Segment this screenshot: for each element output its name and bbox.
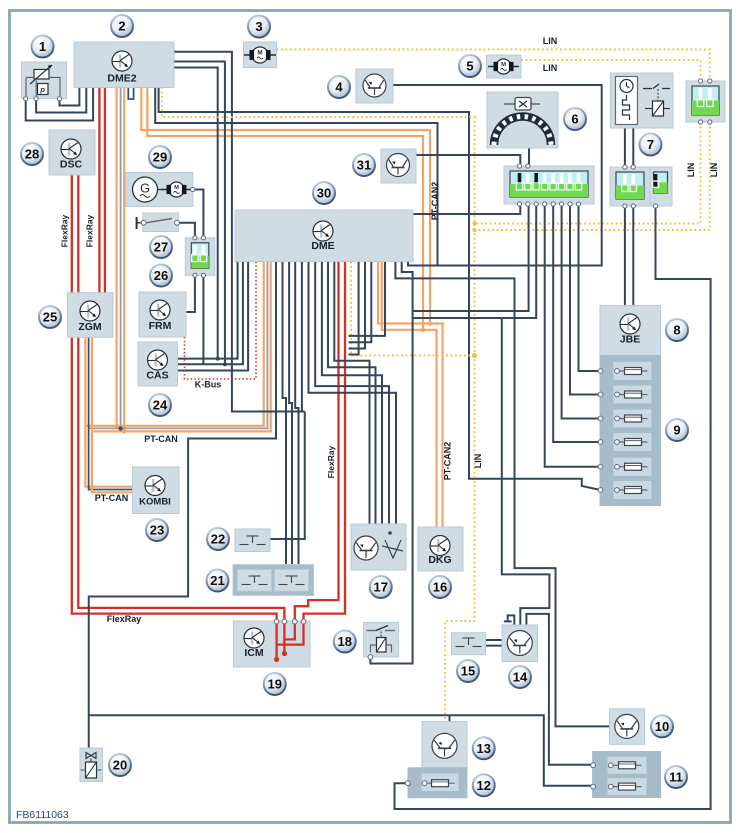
- svg-text:M: M: [257, 50, 262, 57]
- label circle 8: [666, 319, 688, 341]
- label circle 27: [150, 236, 172, 258]
- wire box1-DME2 mid: [36, 87, 86, 113]
- svg-text:FRM: FRM: [149, 320, 172, 332]
- svg-text:PT-CAN2: PT-CAN2: [443, 442, 453, 481]
- wire DME2 y123 to box4 net: [155, 87, 437, 266]
- svg-text:17: 17: [374, 580, 388, 595]
- label circle 30: [313, 182, 335, 204]
- wire FlexRay DME-ICM a: [295, 262, 339, 622]
- fuse 9-4: [614, 434, 651, 451]
- transistor box 4: [356, 69, 393, 103]
- wire DME2 to JBE row6: [159, 87, 601, 490]
- svg-text:p: p: [39, 85, 45, 94]
- wire DME to box17 4: [315, 262, 389, 525]
- wire bottom run to box11 row2: [89, 715, 611, 785]
- connector 7 single black: [650, 167, 672, 208]
- wire FlexRay DME2-ZGM a: [98, 87, 100, 293]
- label circle 11: [665, 766, 687, 788]
- ICM red internal wiring: [275, 622, 277, 659]
- wire DME stub left 2: [349, 262, 372, 343]
- wire conn27 to FRM: [186, 275, 195, 312]
- label circle 28: [21, 143, 43, 165]
- wire PT-CAN ZGM-KOMBI c: [92, 337, 133, 492]
- svg-text:FlexRay: FlexRay: [85, 214, 95, 247]
- label circle 18: [334, 631, 356, 653]
- wire LIN conn right b dotted: [475, 122, 710, 230]
- svg-text:22: 22: [211, 532, 225, 547]
- svg-text:LIN: LIN: [686, 163, 696, 178]
- wire DME to box17 3: [322, 262, 382, 525]
- label circle 23: [146, 519, 168, 541]
- wire conn6 p6 JBE row3: [562, 204, 601, 419]
- LIN connector top right: [686, 79, 725, 124]
- svg-text:FlexRay: FlexRay: [107, 614, 142, 624]
- junction dots LIN: [472, 353, 477, 358]
- label circle 5: [459, 55, 481, 77]
- wire CAS-DME b: [178, 262, 243, 365]
- wire PT-CAN2 b DME2 branch: [147, 87, 423, 330]
- label circle 4: [328, 76, 350, 98]
- wire DME to box18: [370, 262, 412, 664]
- fuse box 11: [593, 752, 661, 798]
- label circle 20: [109, 754, 131, 776]
- svg-text:5: 5: [466, 59, 473, 74]
- wire box15-box14 b: [486, 645, 502, 647]
- label circle 24: [149, 394, 171, 416]
- svg-text:28: 28: [25, 147, 39, 162]
- junction dots CAS wires: [216, 357, 220, 361]
- label circle 9: [666, 419, 688, 441]
- label circle 31: [353, 154, 375, 176]
- wire box12 to conn7b: [395, 206, 711, 809]
- wire PT-CAN orange DME2 down: [115, 87, 117, 426]
- svg-text:LIN: LIN: [709, 163, 719, 178]
- wire LIN DME2-box13 dotted: [162, 87, 475, 722]
- svg-text:ICM: ICM: [244, 647, 264, 659]
- control unit DKG box 16: [418, 527, 463, 571]
- svg-text:18: 18: [338, 634, 352, 649]
- svg-text:FB6111063: FB6111063: [16, 809, 69, 821]
- svg-text:9: 9: [673, 423, 680, 438]
- svg-text:4: 4: [335, 80, 343, 95]
- wire CAS-DME c: [178, 262, 249, 371]
- wire FlexRay DME2-ZGM b: [104, 87, 106, 293]
- svg-text:26: 26: [154, 268, 168, 283]
- label circle 2: [111, 15, 133, 37]
- clock relay box 7: [611, 73, 674, 128]
- wire box7 to conn7 b: [632, 128, 634, 167]
- wire conn6 p5 JBE row4: [553, 204, 600, 442]
- connector under box 7: [610, 165, 650, 208]
- wire DME stub left 1: [349, 262, 386, 336]
- wire PT-CAN horiz c to DME: [92, 262, 271, 432]
- wire DME to box17 5: [309, 262, 397, 525]
- label circle 10: [651, 715, 673, 737]
- svg-text:LIN: LIN: [473, 454, 483, 469]
- wire DME to box21 a: [283, 262, 287, 567]
- wire DME to box22 pin: [301, 262, 303, 412]
- wire stub loop DME2: [128, 87, 133, 99]
- wire DME stub left 4: [349, 262, 359, 355]
- wire conn6 p8 JBE row1: [579, 204, 601, 371]
- svg-text:FlexRay: FlexRay: [326, 445, 336, 478]
- control unit JBE box 8: [600, 306, 661, 356]
- wire LIN DME dotted: [351, 262, 475, 356]
- svg-text:12: 12: [477, 778, 491, 793]
- wire DME2 right 1 to box22 net: [174, 52, 305, 412]
- fuse 9-3: [614, 410, 651, 427]
- switch box 27: [143, 213, 179, 232]
- svg-text:PT-CAN2: PT-CAN2: [430, 182, 440, 221]
- wire box6 to conn6: [528, 148, 530, 166]
- control unit DME box 30: [235, 210, 413, 262]
- svg-text:DSC: DSC: [60, 159, 83, 171]
- sensor box 22: [235, 529, 270, 552]
- transistor box 14: [502, 625, 538, 662]
- connector 27: [185, 236, 215, 278]
- wire DME to box17 2: [328, 262, 376, 525]
- svg-text:27: 27: [154, 240, 168, 255]
- label circle 7: [640, 134, 662, 156]
- svg-text:DME: DME: [311, 240, 334, 252]
- label circle 22: [207, 528, 229, 550]
- label circle 21: [207, 570, 229, 592]
- wire DME2 right 2: [174, 62, 225, 365]
- wire DME to conn6 pin3: [413, 204, 536, 318]
- svg-text:LIN: LIN: [543, 36, 558, 46]
- wire FlexRay DSC-ICM a: [72, 175, 277, 622]
- wire box22 drop: [270, 412, 305, 540]
- motor box 5: [487, 55, 522, 78]
- wire FlexRay DSC-ICM b: [78, 175, 284, 622]
- label circle 13: [473, 737, 495, 759]
- wire DME stub left 3: [349, 262, 366, 349]
- wire CAS-DME a: [178, 262, 238, 359]
- fuse 9-5: [614, 458, 651, 475]
- generator box 29: [126, 173, 193, 207]
- wire switch to conn27: [177, 223, 195, 238]
- wire DME to box20: [89, 262, 276, 749]
- wire PT-CAN gray DME2 down: [120, 87, 122, 428]
- wire box31 to conn6: [416, 155, 520, 166]
- junction dots PT-CAN: [114, 424, 118, 428]
- wire PT-CAN ZGM-KOMBI b: [89, 337, 133, 490]
- svg-text:31: 31: [357, 158, 371, 173]
- wire box14 stub: [508, 615, 515, 625]
- wire LIN box5 dotted: [521, 60, 701, 81]
- svg-text:CAS: CAS: [146, 370, 168, 382]
- label circle 6: [564, 108, 586, 130]
- svg-text:15: 15: [461, 664, 475, 679]
- svg-text:3: 3: [255, 19, 262, 34]
- wire LIN conn right a dotted: [475, 122, 701, 224]
- junction dots PT-CAN2: [428, 321, 432, 325]
- svg-text:M: M: [501, 62, 506, 68]
- control unit KOMBI box 23: [133, 467, 180, 514]
- wire PT-CAN2 b DME-DKG: [382, 262, 437, 528]
- svg-text:29: 29: [153, 150, 167, 165]
- wire conn27 to CAS net: [202, 275, 204, 364]
- wire DME to box17 1: [334, 262, 369, 525]
- svg-text:M: M: [174, 185, 179, 191]
- wire DME to conn6 pin2: [413, 204, 529, 311]
- svg-text:DME2: DME2: [107, 73, 136, 85]
- label circle 15: [457, 660, 479, 682]
- wire DME2 right 3: [174, 68, 218, 359]
- wire box14-box11 row1: [526, 614, 610, 765]
- gauge box 6: [487, 92, 558, 148]
- label circle 17: [370, 576, 392, 598]
- sensor box 1: [22, 62, 67, 99]
- svg-text:20: 20: [113, 758, 127, 773]
- svg-text:PT-CAN: PT-CAN: [144, 434, 178, 444]
- svg-text:13: 13: [477, 741, 491, 756]
- wire PT-CAN horiz b to DME: [89, 262, 268, 429]
- label circle 19: [264, 673, 286, 695]
- control unit DME2 box 2: [74, 42, 174, 88]
- svg-text:16: 16: [433, 580, 447, 595]
- fuse 9-2: [614, 386, 651, 403]
- fuse box 12: [408, 768, 467, 798]
- svg-text:1: 1: [39, 39, 46, 54]
- valve box 20: [80, 748, 103, 782]
- control unit ICM box 19: [234, 621, 311, 667]
- wire to box14 in1: [502, 318, 550, 625]
- wire conn7 to JBE a: [624, 206, 626, 306]
- wire FlexRay DME-ICM b: [304, 262, 346, 622]
- svg-text:8: 8: [673, 323, 680, 338]
- wire conn6 p7 JBE row2: [570, 204, 601, 395]
- wire DME-box4: [393, 85, 602, 266]
- svg-text:23: 23: [150, 523, 164, 538]
- label circle 25: [39, 306, 61, 328]
- wire PT-CAN2 a DME2 branch: [141, 87, 430, 324]
- svg-text:KOMBI: KOMBI: [139, 497, 171, 508]
- svg-text:21: 21: [210, 573, 224, 588]
- transistor box 10: [610, 709, 645, 745]
- label circle 26: [150, 265, 172, 287]
- wire DME to conn6 pin1: [413, 204, 520, 214]
- wire DME to box21 b: [289, 262, 292, 567]
- motor box 3: [244, 42, 277, 68]
- wire box29 to conn27: [193, 190, 204, 238]
- wire box15-box14 a: [486, 639, 502, 641]
- control unit DSC box 28: [49, 130, 95, 175]
- transistor box 31: [381, 149, 416, 183]
- sensor box 21: [233, 565, 314, 596]
- svg-text:7: 7: [647, 137, 654, 152]
- relay box 18: [364, 622, 399, 657]
- sensor box 15: [452, 633, 486, 655]
- svg-text:PT-CAN: PT-CAN: [95, 493, 129, 503]
- wire PT-CAN orange2 DME2 down: [123, 87, 125, 431]
- wire PT-CAN2 a DME-DKG: [378, 262, 443, 528]
- connector under box 6: [504, 164, 594, 206]
- wire conn6 p4 JBE row5: [545, 204, 601, 467]
- wire K-Bus dotted: [185, 262, 257, 380]
- wire PT-CAN ZGM-KOMBI a: [85, 337, 132, 487]
- svg-text:K-Bus: K-Bus: [195, 380, 222, 390]
- svg-text:19: 19: [268, 677, 282, 692]
- wire box1-DME2 outer: [26, 87, 93, 121]
- transistor box 13: [422, 722, 467, 769]
- box 17 sensors: [351, 524, 406, 570]
- label circle 1: [32, 36, 54, 58]
- control unit FRM box: [139, 292, 186, 337]
- wire LIN box3 dotted: [277, 50, 710, 82]
- svg-text:FlexRay: FlexRay: [60, 214, 70, 247]
- svg-text:24: 24: [153, 398, 168, 413]
- svg-text:11: 11: [669, 770, 683, 785]
- wire DME to box10: [395, 262, 609, 727]
- label circle 3: [248, 16, 270, 38]
- wire conn7 to JBE b: [632, 206, 634, 306]
- control unit CAS box: [138, 342, 178, 386]
- svg-text:ZGM: ZGM: [78, 321, 102, 333]
- svg-text:LIN: LIN: [543, 63, 558, 73]
- svg-text:14: 14: [513, 670, 528, 685]
- wire PT-CAN horiz a to DME: [85, 262, 263, 426]
- svg-text:2: 2: [118, 19, 125, 34]
- svg-text:30: 30: [317, 186, 331, 201]
- gateway ZGM box 25: [68, 293, 114, 338]
- svg-text:G: G: [140, 181, 150, 196]
- label circle 12: [473, 774, 495, 796]
- label circle 16: [429, 576, 451, 598]
- label circle 14: [509, 666, 531, 688]
- fuse 9-6: [614, 482, 651, 499]
- wire branch to box13: [449, 715, 451, 721]
- wire box7 to conn7 a: [624, 128, 626, 167]
- svg-text:JBE: JBE: [620, 334, 640, 346]
- svg-text:6: 6: [571, 112, 578, 127]
- label circle 29: [149, 146, 171, 168]
- wire DME to box21 c: [295, 262, 298, 567]
- svg-text:10: 10: [655, 719, 669, 734]
- svg-text:25: 25: [43, 310, 57, 325]
- wire box1-DME2 inner: [60, 87, 80, 106]
- svg-text:DKG: DKG: [428, 554, 451, 566]
- fuse 9-1: [614, 363, 651, 380]
- fuse strip box 9: [600, 356, 661, 506]
